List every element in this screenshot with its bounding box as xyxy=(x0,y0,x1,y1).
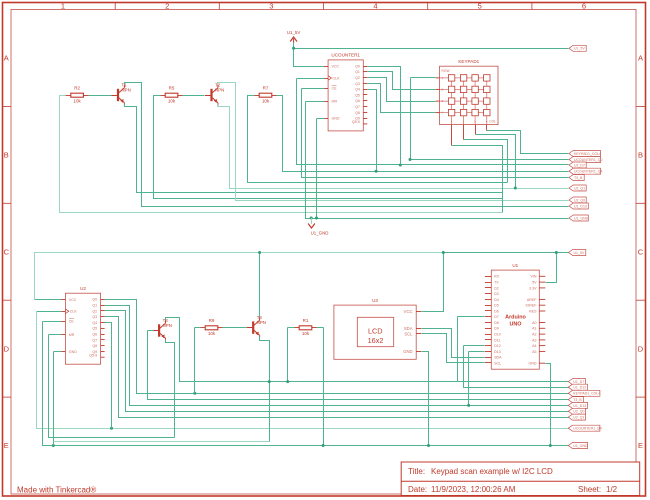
net flag UCOUNTER1_Q0 xyxy=(569,157,602,163)
net flag U1_GND (top) xyxy=(569,215,589,221)
wire U2 CLK to UCOUNTER1_Q4 flag xyxy=(37,312,569,429)
svg-text:U1_GND: U1_GND xyxy=(573,444,588,448)
wire LCD GND down xyxy=(422,352,429,446)
wire Q4 down xyxy=(368,90,377,172)
wire Arduino 5V to rail xyxy=(546,253,557,283)
svg-text:VIN: VIN xyxy=(531,275,537,279)
junction xyxy=(555,251,558,254)
wire keypad row1 xyxy=(411,77,436,79)
svg-text:D2: D2 xyxy=(494,286,499,290)
wire T3 collector to U1_D7 line xyxy=(166,318,458,382)
svg-text:RX: RX xyxy=(494,275,500,279)
net flag U1_D12 xyxy=(568,384,587,390)
wire keypad col3 xyxy=(476,135,516,189)
svg-text:Q0: Q0 xyxy=(92,298,97,302)
net flag KEYPAD1_COL4 (bottom) xyxy=(568,390,600,396)
svg-text:5V: 5V xyxy=(532,281,537,285)
wire Q0 down xyxy=(368,67,401,165)
wire U2 CLK stub xyxy=(37,311,62,313)
IC UCOUNTER1 (decade counter) xyxy=(324,53,367,131)
svg-text:D4: D4 xyxy=(494,298,499,302)
svg-text:Made with Tinkercad®: Made with Tinkercad® xyxy=(17,486,96,495)
junction xyxy=(514,187,517,190)
svg-text:UCOUNTER1: UCOUNTER1 xyxy=(331,53,360,58)
wire UCOUNTER1 CLK stub xyxy=(297,78,325,80)
junction xyxy=(399,164,402,167)
keypad KEYPAD1 (4x4 matrix) xyxy=(436,59,498,125)
wire R2 to T1 base xyxy=(89,95,112,97)
wire U2 VCC stub xyxy=(35,299,62,301)
svg-text:D: D xyxy=(638,344,644,353)
row tick marks left/right xyxy=(3,106,646,397)
svg-text:U1_D13: U1_D13 xyxy=(573,404,586,408)
svg-text:10k: 10k xyxy=(208,331,216,336)
resistor R9 xyxy=(200,318,223,336)
junction xyxy=(268,380,271,383)
wire U2 CE stub xyxy=(43,321,62,323)
svg-text:SDA: SDA xyxy=(494,356,502,360)
wire U2 Q4 down xyxy=(105,323,112,429)
svg-text:GND: GND xyxy=(69,350,77,354)
net flag UCOUNTER1_Q4 (top) xyxy=(569,168,602,174)
wire T4 collector to 5V rail xyxy=(259,253,261,318)
resistor R5 xyxy=(160,86,183,104)
svg-text:UCOUNTER1_Q4: UCOUNTER1_Q4 xyxy=(573,427,601,431)
wire R9 left stub xyxy=(195,327,201,329)
svg-text:UCOUNTER1_Q0: UCOUNTER1_Q0 xyxy=(574,158,602,162)
net flag U2_Q1 (bottom) xyxy=(568,414,585,420)
wire CLK to U1_D7 line xyxy=(297,79,569,165)
Arduino UNO U1 xyxy=(485,263,545,369)
wire D12 to flag xyxy=(464,346,569,388)
svg-text:10k: 10k xyxy=(262,99,270,104)
svg-text:U1_D7: U1_D7 xyxy=(573,380,584,384)
svg-text:LCD: LCD xyxy=(368,326,383,335)
wire row1 down xyxy=(410,78,412,160)
wire UCOUNTER1 CE stub xyxy=(302,88,325,90)
wire U2 MR to T3 emitter xyxy=(49,335,175,438)
transistor T1 (NPN) xyxy=(112,83,131,106)
svg-text:Q8: Q8 xyxy=(92,344,97,348)
svg-text:D8: D8 xyxy=(494,321,499,325)
svg-text:NPN: NPN xyxy=(215,88,224,93)
svg-text:U2_Q1: U2_Q1 xyxy=(573,416,584,420)
wire T4 emitter down xyxy=(260,337,270,442)
wire Arduino D7 wire xyxy=(458,316,485,318)
svg-text:U1_5V: U1_5V xyxy=(287,30,300,35)
wire LCD VCC to 5V rail xyxy=(422,253,444,312)
net flag KEYPAD1_COL4 (top) xyxy=(569,151,601,157)
svg-text:Q4: Q4 xyxy=(355,88,360,92)
svg-text:U2_Q0: U2_Q0 xyxy=(573,410,584,414)
wire R5 left bus xyxy=(154,96,503,199)
wire T3 base stub xyxy=(148,330,154,332)
LCD module U3 (I2C LCD 16x2) xyxy=(334,298,421,359)
wire UCOUNTER1_Q0 line xyxy=(411,159,569,161)
pin keypad col4 xyxy=(486,125,488,131)
wire UCOUNTER1 MR stub xyxy=(306,101,325,103)
net flag U2_Q0 (top) xyxy=(569,197,586,203)
resistor R1 xyxy=(294,318,317,336)
net flag T3_B (bottom) xyxy=(568,397,583,403)
wire U2 GND down xyxy=(53,352,55,446)
svg-text:UNO: UNO xyxy=(510,321,522,327)
svg-text:R7: R7 xyxy=(263,86,269,91)
net flag T3_B (top) xyxy=(569,175,584,181)
wire T4 emitter bus xyxy=(54,441,270,443)
svg-text:A5: A5 xyxy=(532,350,536,354)
svg-text:B: B xyxy=(4,151,9,160)
wire U1_5V rail east (bottom) xyxy=(445,252,569,254)
svg-text:KEYPAD1_COL4: KEYPAD1_COL4 xyxy=(573,392,600,396)
junction xyxy=(310,217,313,220)
junction xyxy=(286,380,289,383)
svg-text:TX: TX xyxy=(494,281,499,285)
svg-text:16x2: 16x2 xyxy=(368,336,384,345)
svg-text:GND: GND xyxy=(403,349,412,354)
power flag U1_GND (top) xyxy=(308,218,328,236)
svg-text:Q2: Q2 xyxy=(92,309,97,313)
svg-text:CE: CE xyxy=(69,320,75,324)
svg-text:B: B xyxy=(638,151,643,160)
wire Arduino GND down xyxy=(546,364,551,446)
svg-text:CE: CE xyxy=(332,86,338,90)
wire Q1 to keypad row2 xyxy=(368,72,436,90)
net flag UCOUNTER1_Q4 (bottom) xyxy=(568,425,601,431)
transistor T2 (NPN) xyxy=(205,83,224,106)
wire T1 emitter bus xyxy=(125,104,503,193)
net flag U1_D13 (bottom) xyxy=(568,402,587,408)
svg-text:SCL: SCL xyxy=(494,361,501,365)
wire U1_5V rail west (bottom) xyxy=(35,253,445,300)
svg-text:D12: D12 xyxy=(494,344,501,348)
wire T3 base to T3_B flag xyxy=(148,331,569,400)
svg-text:D6: D6 xyxy=(494,309,499,313)
junction xyxy=(193,392,196,395)
svg-text:A3: A3 xyxy=(532,338,536,342)
pin keypad col2 xyxy=(463,125,465,140)
svg-text:Q5: Q5 xyxy=(92,327,97,331)
svg-text:U1_GND: U1_GND xyxy=(311,231,329,236)
net flag U1_5V (top right) xyxy=(569,45,586,51)
svg-text:D7: D7 xyxy=(494,315,499,319)
svg-text:U1_5V: U1_5V xyxy=(574,47,585,51)
svg-text:D3: D3 xyxy=(494,292,499,296)
svg-text:5: 5 xyxy=(478,2,482,11)
svg-text:Q3: Q3 xyxy=(355,82,360,86)
svg-text:10k: 10k xyxy=(73,99,81,104)
wire R1 right down xyxy=(323,328,325,446)
svg-text:Title:: Title: xyxy=(408,467,425,476)
svg-text:Q5: Q5 xyxy=(355,93,360,97)
svg-text:R5: R5 xyxy=(169,86,175,91)
svg-text:U2_Q0: U2_Q0 xyxy=(574,198,585,202)
pin keypad col3 xyxy=(475,125,477,135)
svg-text:Q8: Q8 xyxy=(355,111,360,115)
junction xyxy=(315,217,318,220)
wire U1_5V to UCOUNTER1 VCC xyxy=(294,43,325,67)
svg-text:VCC: VCC xyxy=(332,65,340,69)
junction xyxy=(549,444,552,447)
junction xyxy=(110,427,113,430)
column numbers xyxy=(61,2,586,11)
svg-text:2: 2 xyxy=(165,2,169,11)
svg-text:10k: 10k xyxy=(168,99,176,104)
svg-text:Q3: Q3 xyxy=(92,315,97,319)
svg-text:SDA: SDA xyxy=(404,326,413,331)
wire LCD SDA to Arduino SDA xyxy=(422,329,485,358)
junction xyxy=(409,158,412,161)
junction xyxy=(322,444,325,447)
net flag U1_D13 (top) xyxy=(569,203,588,209)
wire Arduino D13 stub xyxy=(469,351,485,353)
svg-text:A2: A2 xyxy=(532,333,536,337)
svg-text:Sheet:: Sheet: xyxy=(578,485,601,494)
svg-text:Q7: Q7 xyxy=(355,105,360,109)
wire Arduino D12 stub xyxy=(464,345,485,347)
svg-text:Q4: Q4 xyxy=(92,321,97,325)
wire U2 CE / U1_GND bus xyxy=(43,322,569,446)
svg-text:R1: R1 xyxy=(303,318,309,323)
svg-text:UCOUNTER1_Q4: UCOUNTER1_Q4 xyxy=(574,170,602,174)
svg-text:D9: D9 xyxy=(494,327,499,331)
svg-text:E: E xyxy=(4,441,9,450)
svg-text:A1: A1 xyxy=(532,327,536,331)
svg-text:Keypad scan example w/ I2C LCD: Keypad scan example w/ I2C LCD xyxy=(431,467,553,476)
wire U2 Q0 to KEYPAD1_COL4 flag xyxy=(105,300,569,394)
wire CE to T3_B xyxy=(302,89,569,178)
wire U2 GND stub xyxy=(54,351,62,353)
svg-text:Q5-9: Q5-9 xyxy=(89,354,97,358)
transistor T4 (NPN) xyxy=(247,315,266,338)
svg-text:VCC: VCC xyxy=(69,298,77,302)
svg-text:NPN: NPN xyxy=(257,320,266,325)
junction xyxy=(292,47,295,50)
svg-text:D11: D11 xyxy=(494,338,500,342)
title block xyxy=(401,462,640,496)
svg-text:U3: U3 xyxy=(372,298,378,303)
resistor R7 xyxy=(254,86,277,104)
wire U2 Q1 to U1_D13 flag xyxy=(105,306,569,406)
junction xyxy=(52,444,55,447)
wire R1 left down xyxy=(287,328,289,382)
wire MR to U1_GND line xyxy=(306,102,569,219)
svg-text:Q0: Q0 xyxy=(355,64,360,68)
svg-text:U1_D12: U1_D12 xyxy=(573,386,586,390)
svg-text:R9: R9 xyxy=(209,318,215,323)
svg-text:U1_D13: U1_D13 xyxy=(574,204,587,208)
svg-text:Q5-9: Q5-9 xyxy=(352,120,360,124)
svg-text:A4: A4 xyxy=(532,344,536,348)
svg-text:A0: A0 xyxy=(532,321,536,325)
svg-text:E: E xyxy=(638,441,643,450)
svg-text:A: A xyxy=(638,54,643,63)
wire T2 collector to U2_Q0 xyxy=(218,83,569,201)
svg-text:6: 6 xyxy=(582,2,586,11)
wire U2 Q2 to U2_Q0 flag xyxy=(105,311,569,412)
svg-text:C: C xyxy=(4,247,10,256)
svg-text:GND: GND xyxy=(332,117,340,121)
svg-text:U1_D7: U1_D7 xyxy=(574,163,585,167)
column tick marks top xyxy=(115,3,532,10)
row letters xyxy=(4,54,644,451)
wire R9 left down xyxy=(194,328,196,394)
svg-text:Q6: Q6 xyxy=(92,333,97,337)
wire T3 emitter down xyxy=(166,340,175,438)
svg-text:10k: 10k xyxy=(302,331,310,336)
svg-text:CLK: CLK xyxy=(333,76,341,80)
svg-text:U1_GND: U1_GND xyxy=(574,216,589,220)
svg-text:KEYPAD1_COL4: KEYPAD1_COL4 xyxy=(574,152,601,156)
pin keypad col1 xyxy=(451,125,453,146)
net flag U2_Q0 (bottom) xyxy=(568,408,585,414)
svg-text:NPN: NPN xyxy=(122,88,131,93)
svg-text:1/2: 1/2 xyxy=(606,485,618,494)
svg-text:T3_B: T3_B xyxy=(573,398,582,402)
wire U2 Q3 to U2_Q1 flag xyxy=(105,317,569,418)
svg-text:AREF: AREF xyxy=(527,298,537,302)
wire R2 left to keypad col1 bus xyxy=(60,96,503,213)
net flag U1_D7 (top) xyxy=(569,162,586,168)
wire R1 right stub xyxy=(317,327,324,329)
svg-text:Q7: Q7 xyxy=(92,338,97,342)
net flag U1_GND (bottom) xyxy=(568,443,588,449)
wire D13 down xyxy=(468,352,470,406)
svg-text:IOREF: IOREF xyxy=(526,304,538,308)
wire keypad col1 xyxy=(452,146,503,213)
svg-text:VCC: VCC xyxy=(404,309,413,314)
net flag U2_Q1 (top) xyxy=(569,185,586,191)
net flag U1_5V (bottom) xyxy=(569,250,586,256)
wire keypad col4 to flag xyxy=(487,131,569,154)
wire T2 emitter to U2_Q1 xyxy=(218,104,569,189)
svg-text:Q6: Q6 xyxy=(355,99,360,103)
wire keypad col2 xyxy=(464,140,508,183)
svg-text:Date:: Date: xyxy=(408,485,427,494)
wire T1 collector to U1_D13 xyxy=(125,83,569,207)
svg-text:SCL: SCL xyxy=(404,331,413,336)
wire U2 MR stub xyxy=(49,334,62,336)
svg-text:U1_5V: U1_5V xyxy=(574,251,585,255)
svg-text:D5: D5 xyxy=(494,304,499,308)
svg-text:1: 1 xyxy=(61,2,65,11)
svg-text:KEYPAD1: KEYPAD1 xyxy=(458,59,479,64)
wire R7 left bus xyxy=(248,96,508,183)
junction xyxy=(427,444,430,447)
junction xyxy=(375,170,378,173)
svg-text:T3_B: T3_B xyxy=(574,176,583,180)
net flag U1_D7 (bottom) xyxy=(568,379,585,385)
svg-text:ROW: ROW xyxy=(442,69,451,73)
wire R9 to T4 base xyxy=(223,327,247,329)
svg-text:D13: D13 xyxy=(494,350,501,354)
svg-text:11/9/2023, 12:00:26 AM: 11/9/2023, 12:00:26 AM xyxy=(431,485,516,494)
wire U1_5V rail to flag xyxy=(294,48,569,50)
svg-text:MR: MR xyxy=(69,333,75,337)
wire GND down xyxy=(316,119,318,219)
svg-text:COL: COL xyxy=(489,120,496,124)
svg-text:Q1: Q1 xyxy=(355,70,360,74)
wire UCOUNTER1 GND stub xyxy=(317,118,325,120)
wire D7 down to U1_D7 flag xyxy=(458,317,569,382)
svg-text:D10: D10 xyxy=(494,333,501,337)
svg-text:Q1: Q1 xyxy=(92,304,97,308)
svg-text:C: C xyxy=(638,247,644,256)
wire Q3 to keypad row4 xyxy=(368,84,436,113)
svg-text:Q2: Q2 xyxy=(355,76,360,80)
junction xyxy=(467,404,470,407)
junction xyxy=(258,251,261,254)
svg-text:GND: GND xyxy=(529,362,537,366)
svg-text:U1: U1 xyxy=(512,263,518,268)
junction xyxy=(442,251,445,254)
transistor T3 (NPN) xyxy=(153,318,172,341)
wire R5 to T2 base xyxy=(183,95,205,97)
svg-text:3.3V: 3.3V xyxy=(529,286,537,290)
svg-text:4: 4 xyxy=(373,2,377,11)
svg-text:U2: U2 xyxy=(80,286,86,291)
svg-text:D: D xyxy=(4,344,10,353)
wire Q2 to keypad row3 xyxy=(368,78,436,102)
svg-text:RES: RES xyxy=(529,309,537,313)
svg-text:Arduino: Arduino xyxy=(505,315,526,321)
svg-text:NPN: NPN xyxy=(163,323,172,328)
svg-text:A: A xyxy=(4,54,9,63)
wire LCD SCL to Arduino SCL xyxy=(422,334,485,363)
svg-text:3: 3 xyxy=(269,2,273,11)
svg-text:U2_Q1: U2_Q1 xyxy=(574,186,585,190)
svg-text:R2: R2 xyxy=(74,86,80,91)
power flag U1_5V (top) xyxy=(287,30,300,43)
svg-text:MR: MR xyxy=(332,100,338,104)
wire R1 left stub xyxy=(288,327,295,329)
IC U2 (decade counter) xyxy=(61,286,104,364)
wire R7 right to UCOUNTER1_Q4 xyxy=(277,96,569,172)
svg-text:CLK: CLK xyxy=(70,310,78,314)
resistor R2 xyxy=(66,86,89,104)
